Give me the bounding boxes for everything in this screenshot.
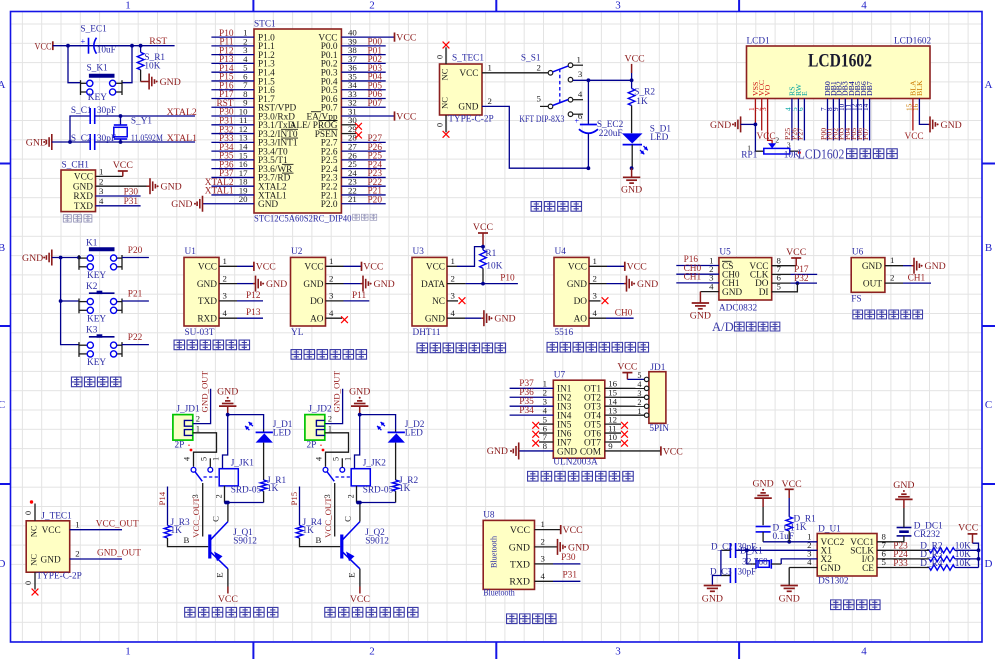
switch S_K1 — [68, 46, 132, 95]
svg-text:1: 1 — [637, 407, 641, 416]
power VCC (STC1 pin31) — [395, 111, 417, 122]
svg-text:GND: GND — [494, 314, 515, 325]
wire K3 out — [122, 344, 149, 346]
S_CH1 pin numbers — [99, 167, 104, 206]
svg-text:4: 4 — [315, 457, 324, 461]
label SU-03T (U1) — [185, 328, 215, 338]
net label P26 (lcd) — [790, 128, 799, 140]
svg-text:2P: 2P — [307, 441, 317, 451]
wire C1 branch — [70, 116, 90, 142]
net label P01 — [368, 46, 383, 56]
svg-text:KEY: KEY — [87, 358, 106, 368]
ground (U8) — [557, 539, 590, 555]
net label P16 — [684, 255, 699, 265]
junction — [139, 44, 143, 48]
pin 1 (RP1) — [747, 143, 751, 152]
junction — [356, 501, 360, 505]
wire STC1 pin13 — [211, 141, 254, 143]
wire STC1 pin14 — [211, 150, 254, 152]
label 2P (J_JD2) — [307, 441, 317, 451]
svg-text:VCC: VCC — [627, 262, 647, 273]
svg-text:GND: GND — [425, 315, 445, 325]
net label P22 — [128, 333, 143, 343]
title lanya mokuai — [507, 614, 557, 624]
junction — [226, 413, 230, 417]
net label P11 — [352, 291, 366, 301]
svg-text:U3: U3 — [413, 247, 425, 257]
svg-text:3: 3 — [451, 291, 456, 301]
svg-text:P14: P14 — [157, 491, 167, 505]
label D_X1 — [740, 546, 763, 556]
wire lcd gnd trunk — [741, 123, 756, 125]
svg-text:U5: U5 — [719, 248, 731, 258]
power VCC (U3) — [473, 222, 493, 247]
net label P31 — [219, 117, 234, 127]
svg-text:CH1: CH1 — [684, 273, 702, 283]
wire STC1 pin40 — [341, 36, 394, 38]
wire U8 pin4 — [535, 580, 581, 582]
wire U3 pin1 — [447, 247, 483, 267]
capacitor D_C2 — [721, 543, 736, 558]
ground (keys) — [22, 250, 52, 266]
wire J_JD2 pin2 GND_OUT — [325, 389, 343, 424]
value 10K (D_R4) — [955, 559, 971, 569]
wire STC1 pin39 — [341, 45, 385, 47]
wire gnd to J_D1 — [228, 415, 264, 430]
wire STC1 pin3 — [211, 54, 254, 56]
module U3 body — [412, 257, 447, 326]
label S_D1 — [650, 125, 672, 135]
label D_R4 — [920, 559, 943, 569]
svg-text:1K: 1K — [303, 526, 315, 536]
pin number 2 (S_TEC1) — [488, 96, 492, 106]
driver U7 pin names — [557, 385, 601, 458]
svg-text:VCC: VCC — [568, 263, 587, 273]
switch K1 — [79, 249, 122, 270]
label J_R3 — [171, 518, 190, 528]
net label P23 — [368, 169, 383, 179]
no-connect X pin30 — [355, 123, 362, 130]
wire STC1 pin19 — [211, 194, 254, 196]
wire STC1 pin20 — [203, 203, 255, 205]
net label P17 — [219, 90, 234, 100]
mcu STC1 pin numbers — [239, 28, 358, 205]
svg-text:GND: GND — [893, 480, 914, 491]
no-ERC marker (J_JD2) — [320, 445, 324, 452]
svg-text:CH0: CH0 — [615, 308, 633, 318]
svg-text:11.0592M: 11.0592M — [131, 134, 163, 144]
label STC12C5A60S2RC_DIP40 — [254, 215, 352, 225]
label R1 — [485, 249, 496, 259]
svg-text:1: 1 — [344, 457, 353, 461]
wire STC1 pin23 — [341, 185, 385, 187]
svg-text:10K: 10K — [955, 559, 971, 569]
svg-text:1K: 1K — [399, 484, 411, 494]
wire lcd VO — [768, 99, 773, 144]
net label P10 — [500, 274, 515, 284]
svg-text:1K: 1K — [267, 484, 279, 494]
net label P33 — [893, 559, 908, 569]
value 10uF — [97, 46, 116, 56]
junction — [754, 123, 758, 127]
junction — [587, 78, 591, 82]
svg-text:VCC: VCC — [74, 173, 93, 183]
wire S_CH1 pin2 — [96, 185, 147, 187]
svg-text:CH1: CH1 — [908, 273, 926, 283]
svg-text:TYPE-C-2P: TYPE-C-2P — [36, 572, 81, 582]
svg-text:4: 4 — [329, 308, 334, 318]
svg-text:LED: LED — [650, 133, 668, 143]
svg-text:GND: GND — [303, 280, 323, 290]
coil wire bottom (J_JK2) — [356, 486, 358, 503]
svg-text:RXD: RXD — [197, 315, 217, 325]
value 30pF (D_C3) — [738, 567, 757, 577]
label J_Q1 — [233, 528, 253, 538]
svg-text:J_JK1: J_JK1 — [231, 459, 255, 469]
value 10K (RP1) — [784, 150, 800, 160]
no-connect X (U7 pin5) — [532, 422, 539, 429]
net label P30 (U8) — [561, 553, 576, 563]
module U6 pin numbers — [890, 255, 894, 282]
svg-text:J_JD1: J_JD1 — [176, 404, 200, 414]
net label GND_OUT (J_JD1) — [199, 370, 209, 412]
wire C2-C3 trunk — [712, 550, 721, 584]
wire U5 pin5 to P32 — [772, 283, 798, 292]
power VCC (U4) — [625, 262, 647, 273]
svg-text:TXD: TXD — [198, 297, 217, 307]
net label P20 — [368, 195, 383, 205]
module U2 pin numbers — [329, 256, 334, 318]
value 220uF — [599, 129, 623, 139]
label LED (J_D1) — [273, 428, 291, 438]
label U6 — [852, 248, 864, 258]
wire lcd VCC pin2 — [761, 99, 763, 131]
svg-text:GND: GND — [702, 593, 723, 604]
label LCD1602 (type) — [894, 37, 932, 47]
junction — [587, 166, 591, 170]
svg-text:C: C — [343, 516, 353, 522]
ground (D_C1) — [752, 479, 773, 526]
label J_JD2 — [308, 404, 332, 414]
no-connect X (U7 pin6) — [532, 431, 539, 438]
driver U7 body — [553, 380, 605, 458]
svg-text:TXD: TXD — [74, 202, 93, 212]
wire U7 OT7 stub — [605, 441, 621, 443]
relay J_JK2 — [323, 458, 370, 536]
wire S_TEC1 pin2 to rail — [482, 106, 588, 168]
wire STC1 pin34 — [341, 89, 385, 91]
transistor pin letters (J_Q2) — [316, 516, 357, 578]
label KEY (K1) — [87, 271, 106, 281]
svg-text:2: 2 — [890, 273, 894, 283]
svg-text:GND_OUT: GND_OUT — [199, 370, 209, 412]
svg-text:P07: P07 — [861, 128, 870, 140]
net label P27 — [368, 134, 383, 144]
net label CH0 (U4) — [615, 308, 633, 318]
pin number 2 (J_TEC1) — [75, 549, 79, 559]
net label P11 — [219, 38, 233, 48]
label S_Y1 — [131, 116, 153, 126]
net label XTAL1 — [167, 133, 197, 144]
power VCC (JD1) — [617, 361, 637, 379]
svg-text:2: 2 — [488, 96, 492, 106]
svg-text:P20: P20 — [368, 195, 383, 205]
svg-text:P20: P20 — [128, 246, 143, 256]
svg-text:VCC: VCC — [35, 42, 52, 52]
connector J_TEC1 — [26, 521, 69, 572]
svg-text:2: 2 — [537, 62, 541, 72]
power VCC (U8) — [561, 525, 583, 536]
svg-text:2: 2 — [214, 494, 223, 498]
resistor D_R3 — [877, 556, 979, 561]
svg-text:ULN2003A: ULN2003A — [553, 457, 598, 467]
resistor D_R1 — [786, 498, 793, 542]
net label RST — [216, 99, 233, 109]
wire U5 pin6 — [772, 282, 791, 284]
ground (U4) — [624, 276, 658, 292]
power VCC (U7 COM) — [661, 446, 683, 457]
svg-text:P2.0: P2.0 — [321, 200, 338, 210]
junction — [68, 140, 72, 144]
S_TEC1 top stub pin 0 — [436, 42, 450, 64]
wire U3 pin3 stub — [447, 300, 458, 302]
svg-text:2: 2 — [369, 0, 375, 12]
svg-text:DO: DO — [310, 297, 324, 307]
value CR232 — [914, 530, 941, 540]
net label P27 (lcd) — [796, 128, 805, 140]
label STC1 — [254, 19, 276, 29]
svg-text:D: D — [985, 558, 993, 570]
label S_S1 — [521, 53, 541, 63]
wire STC1 pin9 — [211, 106, 254, 108]
wire S_CH1 pin4 — [96, 205, 141, 207]
net label XTAL1 — [205, 187, 234, 197]
net label P20 — [128, 246, 143, 256]
connector S_CH1 — [61, 170, 96, 212]
label LED (J_D2) — [405, 428, 423, 438]
svg-text:LCD1602: LCD1602 — [798, 146, 845, 161]
net label P01 (lcd) — [825, 128, 834, 140]
label S_R2 — [634, 87, 655, 97]
mcu STC1 pin names — [258, 33, 338, 210]
svg-text:B: B — [0, 242, 5, 254]
lcd pin names — [751, 80, 924, 96]
svg-text:B: B — [985, 242, 992, 254]
wire STC1 pin30 stub — [341, 124, 356, 126]
svg-text:0: 0 — [24, 581, 33, 585]
svg-text:B: B — [184, 535, 190, 545]
svg-text:U1: U1 — [185, 247, 197, 257]
svg-text:2: 2 — [346, 494, 355, 498]
svg-text:D_C2: D_C2 — [711, 541, 733, 551]
junction — [630, 166, 634, 170]
net label P13 — [246, 308, 261, 318]
label KEY (K3) — [87, 358, 106, 368]
wire RST net — [53, 45, 175, 47]
wire STC1 pin29 stub — [341, 133, 356, 135]
power VCC (U1) — [254, 262, 276, 273]
svg-text:S_EC1: S_EC1 — [80, 25, 107, 35]
label TYPE-C-2P (J_TEC1) — [36, 572, 81, 582]
svg-text:DATA: DATA — [421, 280, 445, 290]
label S9012 (J_Q1) — [233, 537, 257, 547]
svg-text:P11: P11 — [352, 291, 366, 301]
title shizhong mokuai — [831, 600, 881, 610]
net label P00 (lcd) — [819, 128, 828, 140]
svg-text:220uF: 220uF — [599, 129, 623, 139]
wire lcd pin7 — [827, 99, 829, 141]
label D_R3 — [920, 550, 943, 560]
power port VCC (power circuit) — [625, 54, 645, 74]
label S_C2 — [71, 134, 92, 144]
wire VCC to JD1 pin5 — [627, 378, 644, 380]
transistor J_Q1 — [210, 503, 228, 587]
label Bluetooth — [483, 588, 515, 598]
svg-text:VCC: VCC — [218, 594, 238, 605]
net label P26 — [368, 143, 383, 153]
wire U8 pin2 — [535, 546, 557, 548]
label 2P (J_JD1) — [175, 441, 185, 451]
junction — [59, 299, 63, 303]
label D_C2 — [711, 541, 733, 551]
svg-text:A: A — [985, 79, 993, 91]
svg-text:GND: GND — [621, 185, 642, 196]
S_TEC1 pin names — [440, 68, 479, 112]
label J_JD1 — [176, 404, 200, 414]
net label P36 — [519, 388, 534, 398]
svg-text:1K: 1K — [795, 523, 807, 533]
J_TEC1 top stub — [24, 500, 35, 521]
svg-text:P13: P13 — [246, 308, 261, 318]
wire switch pin3 rail — [573, 79, 632, 81]
connector J_JD2 — [305, 415, 325, 441]
wire S_TEC1 pin1 to switch — [482, 72, 548, 74]
title jidianqi kongzhi jiare — [185, 607, 278, 617]
svg-text:AO: AO — [574, 315, 588, 325]
ground (reset) — [141, 74, 181, 90]
label LED (S_D1) — [650, 133, 668, 143]
svg-text:KEY: KEY — [87, 271, 106, 281]
value 1K (J_R4) — [303, 526, 315, 536]
wire U7 pin4 — [510, 414, 554, 416]
svg-text:1: 1 — [196, 424, 200, 433]
net label P24 — [368, 160, 383, 170]
svg-text:2: 2 — [196, 414, 200, 423]
no-connect X (U7 pin7) — [532, 440, 539, 447]
net label P12 — [219, 46, 234, 56]
wire U7 pin1 — [510, 387, 554, 389]
wire lcd pin13 — [863, 99, 865, 141]
net label P13 — [219, 55, 234, 65]
wire U2 pin2 — [326, 283, 361, 285]
label U4 — [555, 247, 567, 257]
coil wire bottom (J_JK1) — [224, 486, 226, 503]
svg-text:P34: P34 — [519, 406, 534, 416]
wire lcd pin12 — [857, 99, 859, 141]
ground (U7) — [487, 442, 519, 459]
net label P04 — [368, 73, 383, 83]
svg-text:1: 1 — [890, 255, 894, 265]
wire U1 pin4 — [219, 317, 263, 319]
svg-text:VCC: VCC — [363, 262, 383, 273]
net label P15 — [289, 491, 299, 505]
label KEY (K2) — [87, 315, 106, 325]
svg-text:S_TEC1: S_TEC1 — [452, 54, 484, 64]
svg-text:1: 1 — [212, 457, 221, 461]
wire U7 OT2 to JD1 — [605, 396, 645, 398]
svg-text:VCC: VCC — [563, 525, 583, 536]
module U8 pin numbers — [541, 519, 546, 581]
title anjian dianlu — [71, 377, 121, 387]
net label CH1 (U5) — [684, 273, 702, 283]
svg-text:D_X1: D_X1 — [740, 546, 763, 556]
svg-text:VCC: VCC — [396, 33, 416, 44]
svg-text:VCC: VCC — [473, 222, 493, 233]
wire U5 pin7 — [772, 273, 818, 275]
junction — [481, 282, 485, 286]
power VCC (J_Q1) — [218, 587, 238, 606]
label D_C3 — [710, 567, 732, 577]
label U7 — [554, 371, 566, 381]
ground (lcd right) — [929, 116, 962, 132]
svg-text:K2: K2 — [86, 282, 98, 292]
power VCC (U5) — [786, 247, 806, 266]
net label P34 — [219, 143, 234, 153]
net label P14 — [157, 491, 167, 505]
label 5516 (U4) — [555, 328, 574, 338]
relay J_JK1 — [191, 458, 238, 536]
svg-text:LED: LED — [405, 428, 423, 438]
svg-text:BLK: BLK — [915, 80, 924, 96]
title A/D zhuanhuan dianlu — [712, 320, 734, 334]
svg-text:S_C2: S_C2 — [71, 134, 92, 144]
svg-text:2: 2 — [99, 176, 103, 186]
net label P05 (lcd) — [849, 128, 858, 140]
net label P30 (S_CH1) — [124, 187, 139, 197]
power VCC (S_CH1) — [113, 160, 133, 177]
wire lcd pin11 — [851, 99, 853, 141]
net label VCC (lcd BLA) — [905, 132, 924, 142]
ground (U3) — [481, 310, 515, 326]
wire STC1 pin8 — [211, 97, 254, 99]
svg-text:VCC: VCC — [663, 446, 683, 457]
svg-text:S_Y1: S_Y1 — [131, 116, 153, 126]
svg-text:U2: U2 — [291, 247, 303, 257]
wire U5 pin1 — [676, 265, 719, 267]
svg-text:GND: GND — [258, 200, 278, 210]
svg-text:E: E — [347, 572, 357, 577]
svg-text:GND: GND — [349, 387, 370, 398]
wire D_U1 pin3 X2 — [781, 559, 817, 564]
wire U2 pin4 stub — [326, 317, 343, 319]
net label P25 — [368, 152, 383, 162]
svg-text:1: 1 — [488, 62, 492, 72]
svg-text:0: 0 — [436, 55, 445, 59]
net label P02 — [368, 55, 383, 65]
wire J_TEC1 pin1 — [70, 529, 122, 531]
power VCC (D_R1) — [782, 479, 802, 498]
wire STC1 pin33 — [341, 97, 385, 99]
svg-text:XTAL1: XTAL1 — [205, 187, 234, 197]
svg-text:32.768: 32.768 — [742, 557, 768, 567]
svg-text:KFT DIP-8X3: KFT DIP-8X3 — [519, 115, 564, 125]
svg-text:4: 4 — [637, 380, 641, 389]
ground (U1) — [253, 276, 287, 292]
wire U5 pin6 net P32 — [791, 282, 818, 284]
label LCD1 — [747, 37, 771, 47]
label DS1302 — [818, 577, 849, 587]
junction — [119, 140, 123, 144]
